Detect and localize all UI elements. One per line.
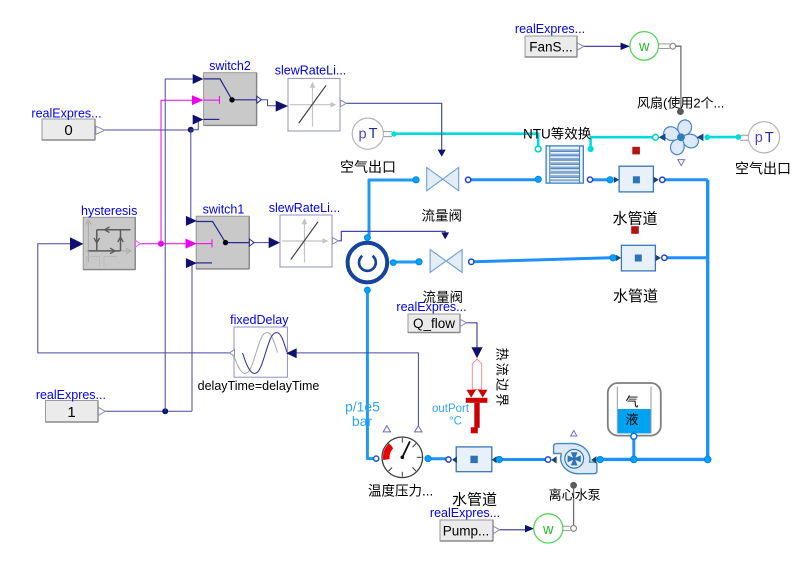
label water pipe 1: [613, 211, 658, 228]
pipe2 right port circle: [662, 255, 667, 260]
wire signal: realExpression 1 output to junction B: [105, 410, 192, 412]
pump centrifugal body: [554, 444, 597, 474]
svg-text:fixedDelay: fixedDelay: [230, 313, 289, 327]
wire water pipe: pipe3 right to pump left: [502, 458, 547, 461]
junction C node magenta: [158, 241, 164, 247]
wire water pipe: right vertical bus: [706, 180, 709, 460]
w1 output port circle: [670, 43, 676, 49]
realExpression Pump output port triangle: [493, 526, 499, 533]
label realExpression 0: [31, 107, 101, 121]
label fan note: [637, 96, 724, 111]
realExpression Q_flow output port triangle: [460, 319, 466, 326]
pipe1 water pipe block: [614, 166, 659, 192]
w1 power meter circle: [630, 32, 670, 61]
realExpression block "Pump...": [440, 520, 493, 541]
fan shaft connector dot: [677, 108, 684, 115]
wire signal: junction B up to switch2 u1: [165, 79, 194, 411]
pump left inflow triangle: [551, 456, 556, 463]
fan left port circle: [653, 134, 659, 140]
label air outlet right: [735, 161, 791, 177]
fixedDelay input arrow (right): [286, 348, 297, 358]
wire water pipe: valve2 right to pipe2 left: [474, 258, 611, 262]
label flow valve 1: [422, 209, 463, 224]
arrow into w2 meter: [525, 525, 534, 533]
realExpression block "FanS...": [525, 36, 577, 57]
label switch2: [209, 59, 251, 73]
fan speed input marker triangle: [678, 160, 685, 166]
wire signal: realExpression 0 output to junction A: [105, 129, 191, 131]
svg-text:水管道: 水管道: [613, 211, 658, 228]
valve1 flow valve bow-tie: [427, 167, 459, 190]
wire water pipe: tank bottom to bottom pipe: [632, 438, 635, 459]
svg-text:0: 0: [64, 122, 72, 139]
switch1 u1 input triangle: [186, 216, 197, 226]
wire signal magenta: hysteresis output to junction C: [141, 243, 195, 245]
valve2 left port dot: [416, 259, 422, 265]
sensor pT1 circle: [352, 118, 392, 149]
junction bottom pipe / tank: [630, 456, 637, 463]
sensor pT2 port dot: [735, 134, 741, 140]
tank expansion vessel: [608, 383, 661, 436]
arrow into prescribed heat flow: [471, 347, 482, 358]
label delayTime parameter: [198, 379, 320, 393]
wire water pipe: compressor C bottom down to gauge left: [367, 292, 374, 459]
fixedDelay output port triangle (left): [229, 350, 234, 357]
svg-text:温度压力...: 温度压力...: [368, 484, 433, 499]
label fixedDelay: [230, 313, 289, 327]
svg-text:空气出口: 空气出口: [735, 161, 791, 177]
switch1 block: [196, 216, 249, 269]
svg-text:气: 气: [625, 395, 638, 410]
sensor pT1 port dot: [391, 131, 396, 136]
fan right port dot: [704, 134, 710, 140]
wire air cyan: heat exchanger air outlet up and right to fan left: [591, 137, 653, 146]
wire air cyan: pT1 sensor to heat exchanger air inlet: [396, 134, 539, 147]
svg-text:离心水泵: 离心水泵: [549, 488, 601, 503]
label heat flow boundary (vertical): [495, 348, 510, 409]
pipe3 right port dot: [496, 456, 502, 462]
pipe3 left port circle: [446, 457, 451, 462]
svg-text:p: p: [755, 130, 763, 146]
slewRateLimiter2 output port triangle: [332, 237, 338, 244]
junction bottom pipe / bus corner: [704, 456, 711, 463]
switch1 output port triangle: [249, 239, 254, 246]
hysteresis output port triangle: [136, 240, 141, 247]
slewRateLimiter2 block: [280, 215, 332, 267]
label flow valve 2: [423, 290, 464, 305]
wire signal: junction B right and up to switch1 u3: [190, 263, 192, 411]
label NTU heat exchanger: [523, 126, 592, 142]
gauge T output marker triangle: [415, 426, 422, 432]
compressor C circle: [348, 243, 388, 283]
svg-text:switch2: switch2: [209, 59, 251, 73]
compressor C right port dot: [390, 260, 396, 266]
wire water pipe: heat exchanger right to pipe1 left: [592, 178, 608, 181]
heat exchanger water right port circle: [587, 177, 592, 182]
svg-text:NTU等效换: NTU等效换: [523, 126, 592, 142]
pump control input marker triangle: [571, 431, 577, 437]
svg-text:bar: bar: [352, 413, 373, 429]
gauge left port circle: [374, 456, 379, 461]
pipe1 left port dot: [607, 177, 613, 183]
svg-text:空气出口: 空气出口: [340, 159, 396, 175]
svg-text:w: w: [638, 39, 650, 55]
label gauge outPort degC: [432, 403, 470, 428]
svg-text:hysteresis: hysteresis: [81, 204, 137, 218]
label switch1: [203, 202, 245, 216]
label slewRateLimiter1: [275, 64, 347, 78]
pipe2 left port dot: [610, 255, 616, 261]
switch2 u2 input triangle magenta: [192, 95, 203, 105]
switch2 output port triangle: [257, 96, 262, 103]
svg-text:FanS...: FanS...: [529, 40, 573, 55]
svg-text:slewRateLi...: slewRateLi...: [275, 64, 347, 78]
svg-text:realExpres...: realExpres...: [36, 388, 106, 402]
switch1 u3 input triangle: [186, 258, 197, 268]
svg-text:水管道: 水管道: [613, 288, 658, 305]
wire signal: Pump realExpression to w2 meter: [499, 529, 525, 531]
svg-text:热流边界: 热流边界: [495, 348, 510, 409]
wire signal: switch2 output to slewRateLimiter1 input: [261, 100, 276, 106]
label hysteresis: [81, 204, 137, 218]
realExpression block "0": [42, 119, 95, 140]
junction A node (0 signal): [188, 127, 194, 133]
pipe2 heat port square: [631, 226, 639, 234]
svg-text:delayTime=delayTime: delayTime=delayTime: [198, 379, 320, 393]
label realExpression Pump: [430, 506, 500, 520]
pump right inflow triangle: [591, 456, 596, 463]
slewRateLimiter2 input arrow: [269, 237, 280, 248]
arrow onto valve1 actuator: [438, 150, 446, 157]
compressor C top port dot: [364, 235, 370, 241]
wire signal: FanS realExpression to w1 meter: [584, 45, 622, 47]
label centrifugal pump: [549, 488, 601, 503]
realExpression block "Q_flow": [408, 314, 460, 333]
label temperature pressure sensor: [368, 484, 433, 499]
slewRateLimiter1 output port triangle: [340, 100, 346, 107]
w2 output port circle: [571, 526, 577, 532]
label air outlet left: [340, 159, 396, 175]
realExpression block "1": [46, 401, 99, 423]
label realExpression Q_flow: [396, 300, 466, 314]
wire water pipe: valve1 right to heat exchanger left: [470, 178, 536, 181]
svg-text:Pump...: Pump...: [443, 524, 490, 539]
switch2 u3 input triangle: [193, 115, 204, 125]
label water pipe 3: [452, 492, 497, 509]
svg-text:风扇(使用2个...: 风扇(使用2个...: [637, 96, 724, 111]
svg-text:p: p: [359, 127, 367, 143]
svg-text:realExpres...: realExpres...: [31, 107, 101, 121]
fan left inflow triangle: [659, 134, 666, 142]
fan right inflow triangle: [697, 134, 704, 142]
fan 4-petal impeller: [662, 119, 700, 157]
wire water pipe: pump right along bottom to bus corner: [603, 458, 708, 461]
pipe1 heat port square: [632, 147, 640, 155]
label realExpression FanS: [515, 22, 585, 36]
svg-text:T: T: [369, 126, 378, 142]
tank bottom port circle: [631, 433, 637, 439]
svg-text:switch1: switch1: [203, 202, 245, 216]
wire water pipe: left elbow from valve1 down to compressor C top: [369, 180, 414, 236]
svg-text:1: 1: [67, 404, 75, 421]
valve2 flow valve bow-tie: [430, 250, 462, 273]
wire gray: w2 meter up to pump shaft: [573, 489, 575, 526]
realExpression FanS output port triangle: [577, 43, 584, 50]
svg-text:°C: °C: [449, 416, 462, 428]
wire water pipe: gauge right to pipe3 left: [430, 457, 447, 460]
wire signal: Q_flow realExpression to prescribed heat flow: [466, 323, 477, 348]
wire signal: slewRateLimiter2 output to valve2 actuator: [338, 231, 445, 240]
realExpression 1 output port triangle: [98, 407, 105, 415]
wire water pipe: pipe1 right to right bus corner: [665, 178, 708, 181]
prescribed heat flow boundary icon: [466, 359, 488, 433]
wire air cyan: fan right to pT2 sensor: [710, 136, 737, 139]
wire signal: switch1 output to slewRateLimiter2 input: [254, 242, 270, 244]
svg-text:realExpres...: realExpres...: [515, 22, 585, 36]
hysteresis input triangle: [70, 237, 83, 250]
wire signal: fixedDelay output feedback to hysteresis input: [38, 244, 229, 353]
label water pipe 2: [613, 288, 658, 305]
wire signal: gauge T output up to fixedDelay input: [297, 353, 419, 426]
heat exchanger air right port dot: [588, 146, 594, 152]
svg-text:outPort: outPort: [432, 403, 470, 415]
svg-text:Q_flow: Q_flow: [413, 316, 455, 331]
wire signal: junction A up into switch2 u3: [191, 119, 199, 130]
pipe2 water pipe block: [616, 245, 661, 271]
heat exchanger NTU block: [546, 146, 583, 183]
pump right port dot: [597, 456, 603, 462]
switch1 u2 input triangle magenta: [186, 239, 197, 249]
arrow into w1 meter: [621, 43, 630, 50]
w2 power meter circle: [534, 514, 571, 543]
gauge right port dot: [425, 455, 431, 461]
pump left port circle: [545, 457, 550, 462]
svg-text:水管道: 水管道: [452, 492, 497, 509]
svg-text:slewRateLi...: slewRateLi...: [269, 201, 341, 215]
wire water pipe: compressor C right to valve2 left: [395, 261, 417, 264]
junction B node (1 signal): [162, 408, 168, 414]
pump shaft connector dot: [570, 482, 577, 489]
svg-text:w: w: [542, 522, 554, 538]
gauge p output marker triangle: [383, 426, 390, 432]
heat exchanger air left port circle: [535, 146, 541, 152]
sensor pT2 circle: [740, 122, 780, 153]
fixedDelay block: [233, 327, 287, 377]
label gauge p/1e5 bar: [345, 399, 380, 430]
svg-text:液: 液: [625, 412, 638, 427]
wire signal: junction A down to switch1 u1: [189, 130, 192, 221]
wire signal magenta: junction C up to switch2 u2: [161, 100, 193, 244]
hysteresis block: [83, 217, 135, 269]
valve1 left port dot: [413, 177, 419, 183]
valve2 right port circle: [469, 259, 474, 264]
label slewRateLimiter2: [269, 201, 341, 215]
svg-text:T: T: [765, 130, 774, 146]
label realExpression 1: [36, 388, 106, 402]
slewRateLimiter1 block: [288, 78, 340, 131]
slewRateLimiter1 input arrow: [276, 101, 288, 112]
wire signal: slewRateLimiter1 output to valve1 actuator: [346, 103, 442, 150]
pipe3 water pipe block: [452, 447, 497, 472]
switch2 block: [204, 73, 257, 126]
heat exchanger water left port dot: [535, 176, 541, 182]
arrow onto valve2 actuator: [441, 232, 449, 239]
wire gray: w1 meter to fan shaft: [676, 46, 681, 108]
pipe1 right port circle: [660, 177, 665, 182]
switch2 u1 input triangle: [193, 74, 204, 84]
gauge temperature/pressure sensor: [382, 437, 423, 478]
wire water pipe: pipe2 right to bus: [667, 256, 708, 259]
svg-text:流量阀: 流量阀: [423, 290, 464, 305]
valve1 right port circle: [466, 177, 471, 182]
realExpression 0 output port triangle: [96, 126, 105, 134]
compressor C bottom port dot: [364, 287, 370, 293]
svg-text:流量阀: 流量阀: [422, 209, 463, 224]
